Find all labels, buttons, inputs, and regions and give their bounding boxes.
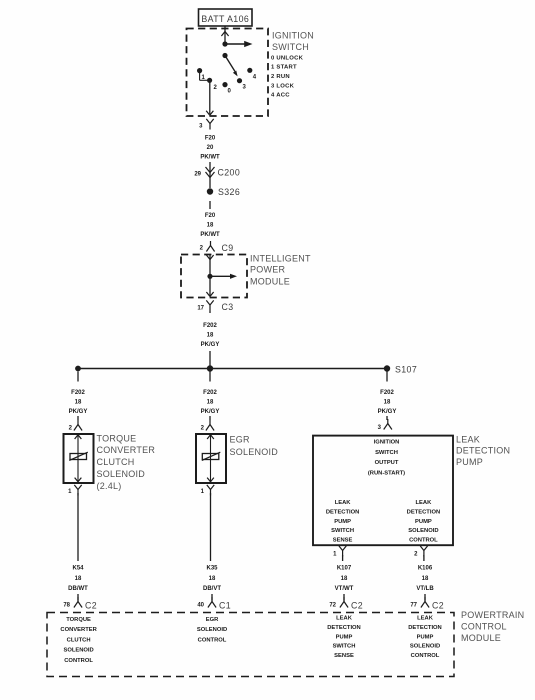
svg-text:72: 72 bbox=[329, 603, 336, 609]
svg-text:SENSE: SENSE bbox=[334, 653, 354, 659]
svg-text:LEAK: LEAK bbox=[416, 500, 433, 506]
svg-text:SENSE: SENSE bbox=[333, 538, 353, 544]
svg-text:PK/GY: PK/GY bbox=[201, 342, 220, 348]
svg-text:BATT A106: BATT A106 bbox=[201, 14, 249, 24]
svg-text:MODULE: MODULE bbox=[250, 276, 290, 286]
svg-text:F20: F20 bbox=[205, 136, 216, 142]
svg-text:78: 78 bbox=[63, 603, 70, 609]
svg-text:18: 18 bbox=[75, 399, 82, 405]
svg-text:PK/WT: PK/WT bbox=[200, 232, 220, 238]
svg-text:CONTROL: CONTROL bbox=[409, 538, 438, 544]
svg-text:(RUN-START): (RUN-START) bbox=[368, 470, 405, 476]
svg-text:LEAK: LEAK bbox=[456, 434, 480, 444]
svg-text:C200: C200 bbox=[218, 168, 241, 178]
svg-text:CONTROL: CONTROL bbox=[411, 653, 440, 659]
svg-text:PK/WT: PK/WT bbox=[200, 154, 220, 160]
svg-text:40: 40 bbox=[197, 603, 204, 609]
svg-text:DETECTION: DETECTION bbox=[327, 625, 361, 631]
svg-text:C1: C1 bbox=[219, 601, 231, 611]
svg-text:PK/GY: PK/GY bbox=[69, 409, 88, 415]
svg-text:SOLENOID: SOLENOID bbox=[63, 648, 93, 654]
svg-text:DETECTION: DETECTION bbox=[407, 509, 441, 515]
svg-text:SWITCH: SWITCH bbox=[375, 450, 398, 456]
svg-text:(2.4L): (2.4L) bbox=[97, 481, 122, 491]
svg-text:MODULE: MODULE bbox=[461, 633, 501, 643]
svg-text:CONVERTER: CONVERTER bbox=[60, 627, 97, 633]
svg-text:SOLENOID: SOLENOID bbox=[408, 528, 438, 534]
svg-text:CONTROL: CONTROL bbox=[198, 637, 227, 643]
svg-text:18: 18 bbox=[207, 332, 214, 338]
svg-text:K35: K35 bbox=[206, 566, 218, 572]
svg-text:PK/GY: PK/GY bbox=[201, 409, 220, 415]
svg-text:IGNITION: IGNITION bbox=[374, 440, 400, 446]
svg-text:CONTROL: CONTROL bbox=[64, 658, 93, 664]
svg-text:SOLENOID: SOLENOID bbox=[97, 469, 146, 479]
svg-text:C2: C2 bbox=[432, 601, 444, 611]
svg-text:PK/GY: PK/GY bbox=[378, 409, 397, 415]
svg-text:18: 18 bbox=[207, 399, 214, 405]
svg-text:PUMP: PUMP bbox=[334, 519, 351, 525]
svg-text:0 UNLOCK: 0 UNLOCK bbox=[271, 55, 304, 61]
svg-text:CONVERTER: CONVERTER bbox=[97, 445, 156, 455]
svg-text:C2: C2 bbox=[351, 601, 363, 611]
svg-text:F202: F202 bbox=[203, 390, 217, 396]
svg-text:DETECTION: DETECTION bbox=[456, 445, 510, 455]
svg-text:SWITCH: SWITCH bbox=[331, 528, 354, 534]
svg-text:18: 18 bbox=[384, 399, 391, 405]
svg-text:CONTROL: CONTROL bbox=[461, 621, 507, 631]
svg-text:POWER: POWER bbox=[250, 265, 286, 275]
svg-text:PUMP: PUMP bbox=[417, 634, 434, 640]
svg-text:CLUTCH: CLUTCH bbox=[67, 637, 91, 643]
svg-text:C2: C2 bbox=[85, 601, 97, 611]
svg-text:DB/VT: DB/VT bbox=[203, 586, 221, 592]
svg-text:SWITCH: SWITCH bbox=[272, 42, 309, 52]
svg-text:EGR: EGR bbox=[206, 617, 219, 623]
svg-text:DETECTION: DETECTION bbox=[326, 509, 360, 515]
svg-text:17: 17 bbox=[197, 306, 204, 312]
svg-text:4 ACC: 4 ACC bbox=[271, 93, 290, 99]
svg-text:POWERTRAIN: POWERTRAIN bbox=[461, 610, 524, 620]
svg-text:18: 18 bbox=[207, 222, 214, 228]
svg-text:18: 18 bbox=[341, 576, 348, 582]
svg-text:SOLENOID: SOLENOID bbox=[410, 644, 440, 650]
svg-text:PUMP: PUMP bbox=[336, 634, 353, 640]
svg-text:EGR: EGR bbox=[230, 435, 251, 445]
svg-text:PUMP: PUMP bbox=[415, 519, 432, 525]
svg-text:77: 77 bbox=[410, 603, 417, 609]
svg-text:3 LOCK: 3 LOCK bbox=[271, 83, 295, 89]
svg-text:C3: C3 bbox=[222, 302, 234, 312]
svg-text:VT/WT: VT/WT bbox=[335, 586, 354, 592]
svg-text:F202: F202 bbox=[380, 390, 394, 396]
svg-text:DETECTION: DETECTION bbox=[408, 625, 442, 631]
svg-text:TORQUE: TORQUE bbox=[66, 617, 91, 623]
svg-text:18: 18 bbox=[209, 576, 216, 582]
svg-text:VT/LB: VT/LB bbox=[416, 586, 434, 592]
svg-text:IGNITION: IGNITION bbox=[272, 30, 314, 40]
svg-text:2 RUN: 2 RUN bbox=[271, 74, 290, 80]
svg-text:SOLENOID: SOLENOID bbox=[230, 447, 279, 457]
svg-text:F202: F202 bbox=[203, 323, 217, 329]
svg-text:18: 18 bbox=[75, 576, 82, 582]
svg-text:SWITCH: SWITCH bbox=[333, 644, 356, 650]
svg-text:SOLENOID: SOLENOID bbox=[197, 627, 227, 633]
svg-text:F202: F202 bbox=[71, 390, 85, 396]
svg-text:S107: S107 bbox=[395, 365, 417, 375]
svg-text:K106: K106 bbox=[418, 566, 433, 572]
svg-text:20: 20 bbox=[207, 145, 214, 151]
svg-text:PUMP: PUMP bbox=[456, 457, 483, 467]
svg-text:18: 18 bbox=[422, 576, 429, 582]
svg-text:C9: C9 bbox=[222, 243, 234, 253]
svg-text:OUTPUT: OUTPUT bbox=[375, 460, 399, 466]
svg-text:F20: F20 bbox=[205, 213, 216, 219]
svg-text:TORQUE: TORQUE bbox=[97, 433, 137, 443]
svg-text:CLUTCH: CLUTCH bbox=[97, 457, 135, 467]
svg-text:DB/WT: DB/WT bbox=[68, 586, 88, 592]
svg-text:29: 29 bbox=[194, 172, 201, 178]
svg-text:INTELLIGENT: INTELLIGENT bbox=[250, 253, 311, 263]
svg-text:LEAK: LEAK bbox=[336, 616, 353, 622]
svg-text:K107: K107 bbox=[337, 566, 352, 572]
svg-text:K54: K54 bbox=[72, 566, 84, 572]
svg-text:1 START: 1 START bbox=[271, 65, 297, 71]
svg-text:LEAK: LEAK bbox=[335, 500, 352, 506]
svg-text:S326: S326 bbox=[218, 187, 240, 197]
svg-text:LEAK: LEAK bbox=[417, 616, 434, 622]
